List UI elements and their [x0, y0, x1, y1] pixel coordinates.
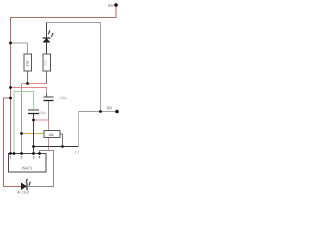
wire yellow to 10k — [22, 133, 45, 135]
lead D2 cathode up — [46, 23, 48, 39]
node dot pin3 — [32, 152, 35, 155]
terminal 0V — [107, 106, 119, 114]
node dot 5V-R1 — [9, 42, 12, 45]
wire red caps-bottom to jog — [34, 120, 49, 151]
node dot pin3 net — [32, 145, 35, 148]
IC U1 IS471 — [9, 154, 47, 173]
node dot pin2 — [20, 152, 23, 155]
terminal 5V — [108, 3, 118, 8]
resistor R1 — [24, 54, 32, 71]
node dot 0V rail — [99, 110, 102, 113]
lead C1 bottom — [48, 101, 50, 121]
svg-text:100µ: 100µ — [59, 96, 67, 100]
svg-text:1: 1 — [10, 156, 12, 160]
wire gray up to 0V rail — [78, 112, 80, 147]
lead R1 bottom — [27, 71, 29, 84]
lead R2 bottom — [46, 71, 48, 84]
wire gray 5V to R1 top — [11, 43, 28, 54]
svg-text:10k: 10k — [26, 60, 30, 66]
svg-text:0V: 0V — [107, 106, 112, 111]
node dot yellow-10k — [20, 132, 23, 135]
wire 10k right lead down — [60, 134, 63, 147]
wire black C2 bottom to pin3 — [33, 114, 35, 154]
node dot R1R2 — [26, 82, 29, 85]
node dot 5V-C1 — [9, 86, 12, 89]
wire gray jog pin4 to IR LED cathode — [28, 151, 54, 187]
wire black pin3 net horizontal — [34, 146, 79, 148]
wire red branch to C1 top — [11, 88, 47, 94]
node dot 10k-down — [61, 145, 64, 148]
capacitor C1 100u — [44, 94, 67, 101]
node dot pin1 green — [13, 152, 16, 155]
node dot 5V-IRLED — [9, 97, 12, 100]
wire red node83 R1-R2 bottoms — [22, 83, 47, 85]
svg-text:10k: 10k — [48, 133, 54, 137]
capacitor C2 100n — [28, 110, 46, 115]
LED D1 IR — [17, 179, 31, 195]
wire 5V rail red: terminal to pin1 — [11, 5, 117, 154]
svg-text:100n: 100n — [39, 111, 47, 115]
LED D2 visible — [43, 30, 54, 42]
node dot pin1 — [9, 152, 12, 155]
wire gray LED cathode to 0V — [47, 23, 101, 112]
wire gray 0V rail — [79, 111, 118, 113]
resistor R2 — [43, 54, 51, 71]
svg-text:3: 3 — [33, 156, 35, 160]
svg-text:330: 330 — [44, 60, 48, 66]
node dot pin4 — [38, 152, 41, 155]
svg-text:IS471: IS471 — [22, 166, 33, 171]
svg-text:IR LED: IR LED — [17, 191, 29, 195]
wire green pin1 to C2 top — [14, 92, 34, 154]
wire gray vertical pin2 — [21, 84, 23, 154]
svg-text:2: 2 — [21, 156, 23, 160]
lead D2 anode to R2 — [46, 43, 48, 55]
node dot C2-bottom — [32, 119, 35, 122]
svg-text:4: 4 — [39, 156, 41, 160]
stub label marks — [76, 151, 79, 154]
svg-text:5V: 5V — [108, 3, 113, 8]
wire red branch to IR LED anode — [4, 98, 22, 187]
resistor R3 10k — [44, 131, 60, 138]
